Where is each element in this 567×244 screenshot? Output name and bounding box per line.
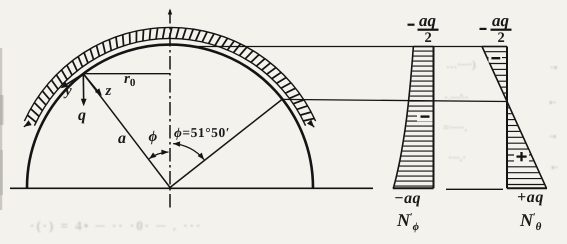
N-phi top edge [413, 46, 433, 48]
label r0 [124, 72, 135, 89]
phi angle arc with arrowheads [149, 152, 168, 159]
shell band left end arrow [24, 123, 30, 127]
label aq numerator (N-phi) [419, 12, 436, 29]
N-phi bottom edge [393, 187, 434, 189]
dome main arc (middle surface) [27, 45, 313, 188]
shell band right end arrow [310, 123, 314, 127]
N-theta label minus stroke [480, 28, 487, 30]
label N-theta [520, 211, 541, 233]
baseline segment between diagrams [446, 188, 503, 190]
label -aq [394, 191, 421, 207]
N-theta diagram axis [506, 47, 508, 189]
radius a line [83, 74, 170, 188]
label aq numerator (N-theta) [492, 12, 509, 29]
label +aq [517, 190, 544, 206]
label 2 denominator (N-phi) [425, 31, 432, 46]
label 2 denominator (N-theta) [498, 31, 505, 46]
N-theta plus sign [514, 151, 529, 163]
q load arrow [82, 74, 84, 105]
N-phi left curve [393, 47, 413, 189]
label a [118, 131, 126, 147]
N-theta minus sign [489, 54, 503, 63]
shell band hatch ticks [28, 28, 315, 122]
51deg50 angle arc with arrowheads [173, 144, 204, 160]
N-theta label fraction bar [491, 29, 512, 31]
label z [106, 84, 112, 99]
N-phi label minus stroke [408, 24, 415, 26]
N-theta bottom edge [507, 187, 547, 189]
vertical dash-dot centerline [169, 10, 171, 210]
apex tangent horizontal line to diagrams [194, 46, 507, 48]
N-theta slant line [482, 47, 547, 189]
N-theta hatch lines [485, 52, 544, 185]
N-theta top edge [482, 46, 507, 48]
left page-edge shading [0, 48, 2, 210]
shell band outer edge [24, 27, 315, 121]
baseline (springing line) [10, 187, 373, 189]
N-phi diagram axis [433, 47, 435, 189]
label y [65, 84, 72, 99]
label phi [149, 130, 158, 145]
label q [78, 108, 86, 124]
N-phi hatch lines [395, 51, 433, 186]
horizontal line from 51deg50 point to N-theta axis [281, 99, 506, 101]
radius line at 51deg50 [170, 99, 282, 187]
r0 horizontal line [83, 73, 170, 75]
ghost show-through text [446, 60, 476, 71]
label phi=51deg50 [174, 126, 230, 140]
N-phi label fraction bar [418, 29, 439, 31]
z axis arrow [83, 74, 100, 95]
shell band inner edge [34, 38, 305, 125]
y axis arrow [62, 74, 83, 88]
N-phi minus sign [417, 112, 433, 121]
centerline top tick [168, 9, 172, 15]
label N-phi [397, 211, 419, 233]
